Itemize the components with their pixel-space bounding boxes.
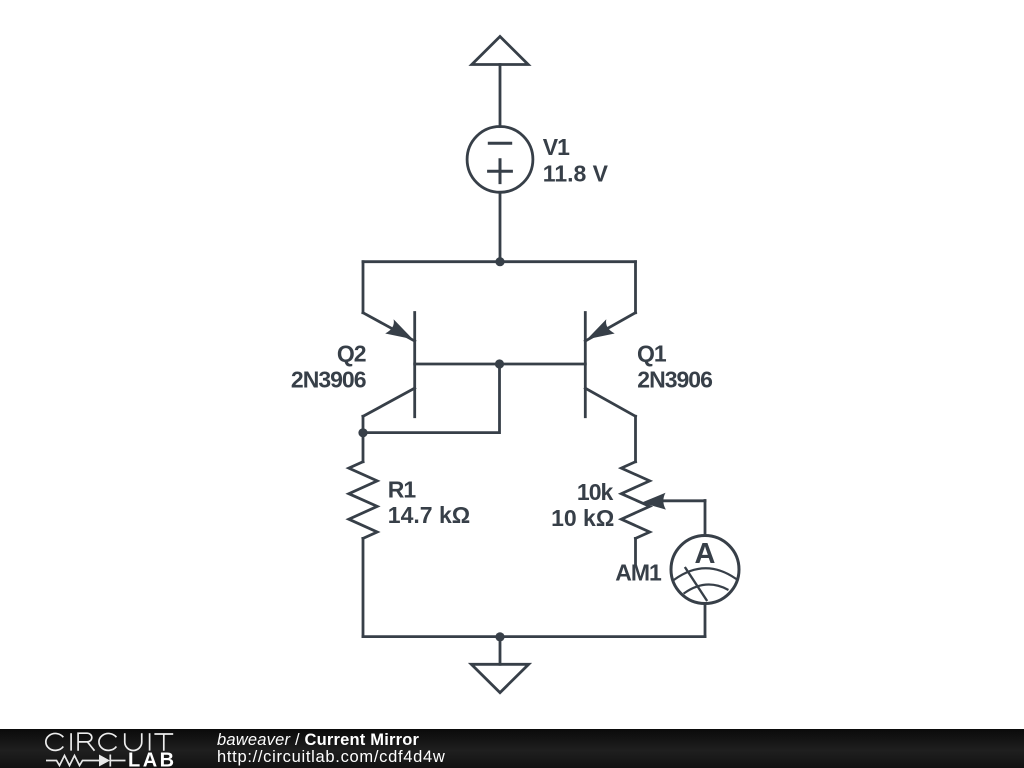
ground (471, 637, 528, 693)
footer text (217, 732, 445, 766)
svg-text:10k: 10k (577, 479, 614, 505)
node base junction (495, 359, 504, 368)
wire left drop to Q2 emitter (362, 262, 365, 313)
svg-text:2N3906: 2N3906 (637, 367, 712, 393)
svg-text:LAB: LAB (128, 750, 177, 768)
wire flag to V1 (499, 65, 502, 127)
potentiometer POT1 10k (621, 416, 705, 565)
wire base to collector tie (363, 364, 500, 433)
transistor Q2 (363, 313, 415, 434)
wire top rail (363, 260, 636, 263)
node collector/R1 junction (358, 428, 367, 437)
svg-text:Q1: Q1 (637, 340, 667, 366)
resistor R1 (349, 433, 377, 637)
wire base rail Q2-Q1 (415, 363, 586, 366)
svg-text:10 kΩ: 10 kΩ (551, 505, 614, 531)
svg-text:V1: V1 (543, 134, 570, 160)
power flag V+ (472, 37, 528, 65)
svg-text:R1: R1 (388, 476, 417, 502)
CircuitLab wordmark resistor-diode glyph (46, 755, 126, 767)
svg-text:AM1: AM1 (615, 559, 662, 585)
wire right drop to Q1 emitter (634, 262, 637, 313)
svg-text:Q2: Q2 (337, 340, 366, 366)
svg-text:A: A (695, 538, 716, 570)
wire bottom rail (363, 635, 705, 638)
svg-text:14.7 kΩ: 14.7 kΩ (388, 502, 470, 528)
svg-text:2N3906: 2N3906 (291, 367, 366, 393)
ammeter AM1 (671, 536, 739, 637)
transistor Q1 (585, 313, 635, 417)
voltage source V1 (467, 126, 533, 192)
CircuitLab logo (0, 727, 200, 768)
CircuitLab wordmark CIRCUIT (46, 733, 173, 751)
footer bar (0, 729, 1024, 768)
node bottom rail junction (495, 632, 504, 641)
svg-text:11.8 V: 11.8 V (543, 161, 609, 187)
wire V1 to top rail (499, 192, 502, 261)
node top rail junction (495, 257, 504, 266)
